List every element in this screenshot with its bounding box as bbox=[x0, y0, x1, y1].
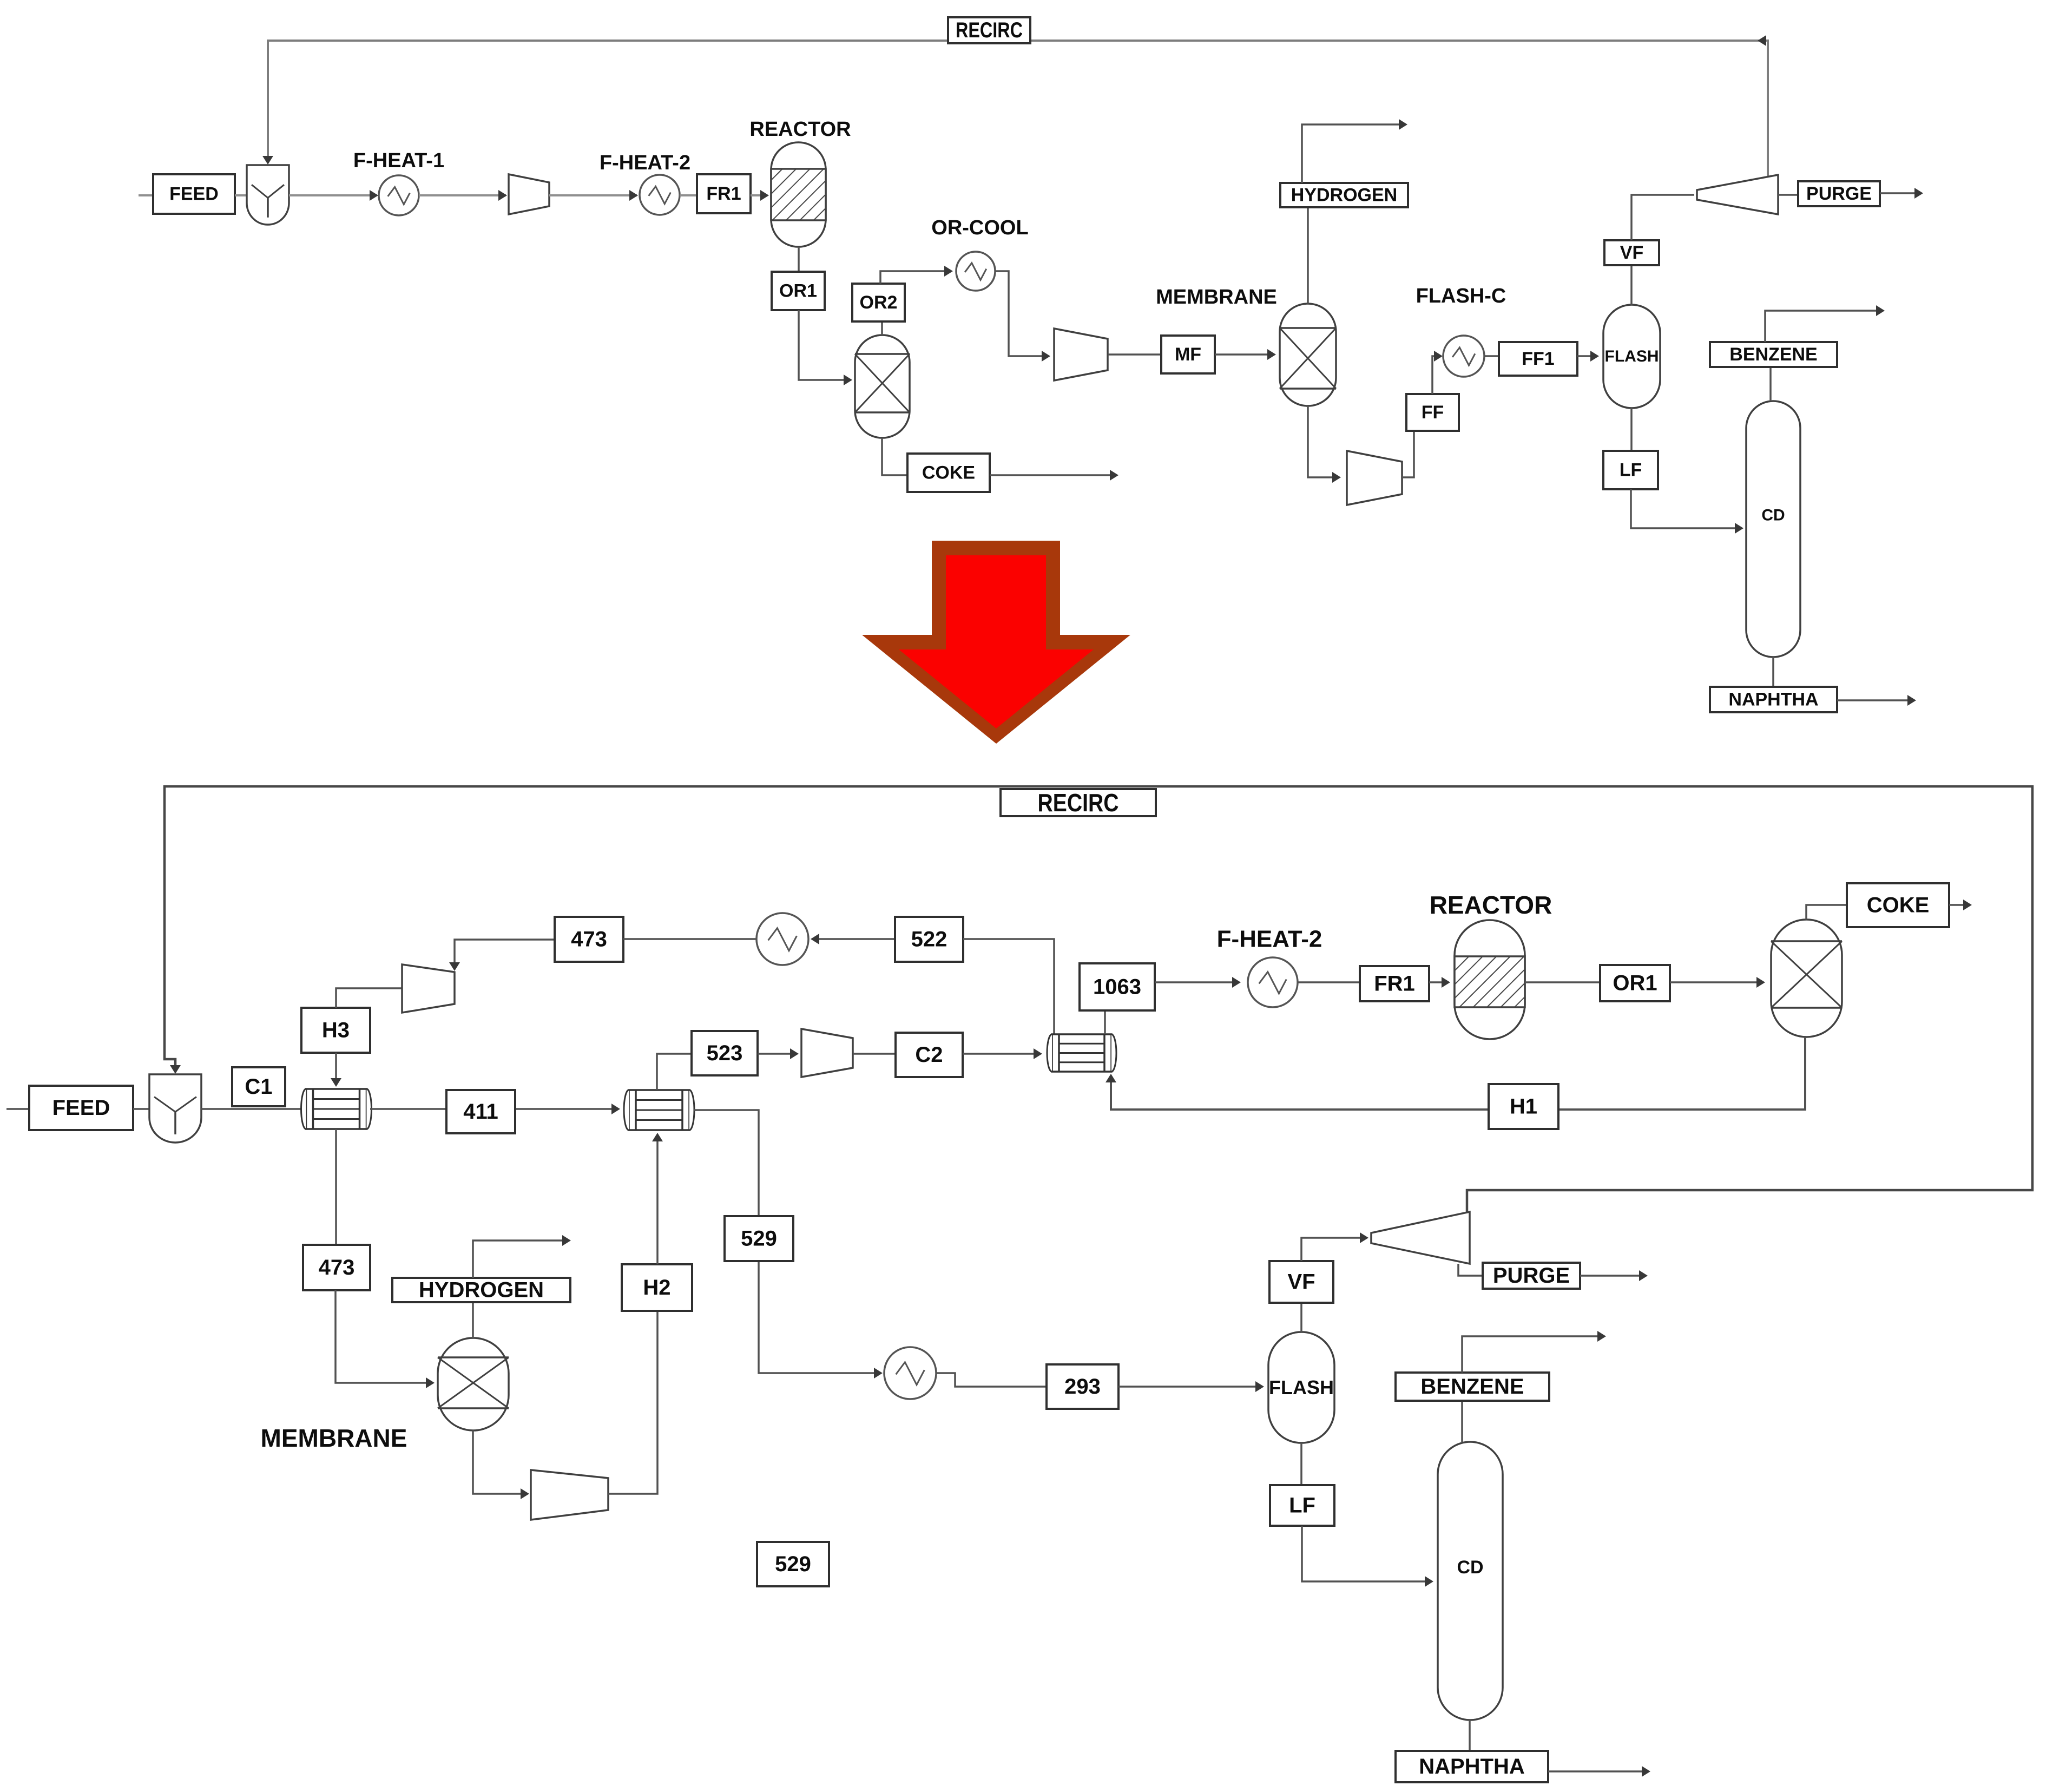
wire PURGE outlet arrow (bottom) bbox=[1580, 1270, 1648, 1281]
wire LF to CD column bbox=[1631, 489, 1743, 534]
big red downward arrow (transform marker) bbox=[862, 541, 1130, 744]
svg-text:529: 529 bbox=[775, 1552, 811, 1576]
wire flash top to VF box (bottom) bbox=[1300, 1303, 1302, 1332]
wire OR1 to separator OR2 bbox=[799, 310, 852, 385]
svg-text:C1: C1 bbox=[245, 1075, 272, 1099]
heat exchanger HX3 (bottom) bbox=[1047, 1034, 1116, 1072]
wire 293 to flash drum (bottom) bbox=[1118, 1381, 1264, 1392]
wire reactor to OR1 (bottom) bbox=[1525, 981, 1600, 983]
stream box 1063 (bottom) bbox=[1080, 963, 1155, 1010]
stream box 522 (bottom) bbox=[895, 917, 963, 962]
stream box FF1 (top) bbox=[1499, 342, 1577, 376]
stream box H3 (bottom) bbox=[301, 1008, 370, 1053]
svg-text:HYDROGEN: HYDROGEN bbox=[419, 1278, 544, 1302]
wire coke drum top to COKE box bbox=[1806, 905, 1847, 920]
stream box RECIRC (bottom) bbox=[1001, 789, 1156, 817]
svg-text:RECIRC: RECIRC bbox=[956, 18, 1023, 42]
compressor K6 (bottom) bbox=[801, 1029, 853, 1077]
wire OR-COOL to compressor K2 bbox=[995, 271, 1050, 362]
svg-text:HYDROGEN: HYDROGEN bbox=[1291, 185, 1397, 206]
svg-text:H2: H2 bbox=[643, 1276, 670, 1299]
heater F-HEAT-1 bbox=[379, 175, 419, 215]
svg-text:RECIRC: RECIRC bbox=[1038, 789, 1119, 817]
stream box NAPHTHA (bottom) bbox=[1396, 1751, 1548, 1782]
cooler E2 (flash feed, bottom) bbox=[884, 1347, 936, 1399]
wire CD top to BENZENE box bbox=[1769, 367, 1772, 401]
wire cooler to 473 box bbox=[623, 938, 756, 940]
stream box FR1 (top) bbox=[697, 174, 751, 213]
heater F-HEAT-2 (bottom) bbox=[1248, 957, 1298, 1007]
expander X1 (bottom left) bbox=[402, 964, 455, 1013]
mixer M1 (bottom) bbox=[149, 1074, 201, 1143]
flash drum (bottom) bbox=[1268, 1332, 1334, 1443]
svg-text:473: 473 bbox=[571, 928, 607, 951]
compressor K1 (top) bbox=[509, 174, 549, 214]
svg-text:OR2: OR2 bbox=[860, 292, 898, 313]
stream box BENZENE (bottom) bbox=[1396, 1373, 1549, 1401]
stream box RECIRC (top) bbox=[948, 17, 1030, 43]
svg-text:COKE: COKE bbox=[922, 463, 975, 483]
svg-text:MEMBRANE: MEMBRANE bbox=[1156, 286, 1277, 308]
wire 522 line from HX3 top bbox=[963, 939, 1054, 1034]
wire FEED to mixer bbox=[235, 194, 247, 196]
stream box MF (top) bbox=[1161, 336, 1215, 373]
svg-text:293: 293 bbox=[1064, 1375, 1101, 1399]
stream box COKE (top) bbox=[907, 454, 990, 492]
wire expander to H3 bbox=[336, 988, 402, 1008]
stream box PURGE (bottom) bbox=[1483, 1263, 1580, 1289]
wire K3 to FF box bbox=[1402, 431, 1414, 477]
stream box H1 (bottom) bbox=[1489, 1084, 1558, 1129]
compressor K7 (purge, bottom) bbox=[1371, 1212, 1470, 1264]
wire recirc top (compressor K4 to mixer M1) bbox=[262, 35, 1768, 176]
cooler FLASH-C bbox=[1443, 336, 1484, 377]
stream box FF (top) bbox=[1406, 394, 1459, 431]
reactor R1 (top) bbox=[771, 142, 826, 247]
svg-text:522: 522 bbox=[911, 928, 947, 951]
stream box 473 (membrane feed, bottom) bbox=[303, 1245, 370, 1290]
svg-text:LF: LF bbox=[1289, 1494, 1315, 1518]
svg-text:PURGE: PURGE bbox=[1806, 183, 1872, 204]
stream box HYDROGEN (bottom) bbox=[392, 1278, 570, 1302]
stream box 411 (bottom) bbox=[446, 1090, 515, 1133]
cooler OR-COOL bbox=[956, 252, 995, 291]
wire coke drum bottom to HX3 (H1 stream) bbox=[1106, 1037, 1805, 1110]
wire HYDROGEN outlet arrow bbox=[1302, 119, 1407, 183]
stream box FR1 (bottom) bbox=[1360, 966, 1429, 1001]
svg-text:FEED: FEED bbox=[169, 184, 219, 205]
wire FEED to mixer (bottom) bbox=[133, 1108, 149, 1110]
wire FR1 to reactor (bottom) bbox=[1429, 977, 1450, 988]
svg-text:BENZENE: BENZENE bbox=[1420, 1375, 1524, 1399]
wire CD top to BENZENE box (bottom) bbox=[1461, 1401, 1463, 1442]
separator vessel (coke drum, top) bbox=[855, 335, 910, 438]
stream box C2 (bottom) bbox=[896, 1033, 963, 1077]
stream box 529 (standalone, bottom) bbox=[757, 1542, 829, 1586]
svg-text:VF: VF bbox=[1287, 1270, 1315, 1294]
svg-text:FF1: FF1 bbox=[1522, 349, 1554, 369]
wire NAPHTHA outlet arrow bbox=[1837, 695, 1916, 706]
wire mixer to HX1 (C1 stream) bbox=[201, 1108, 302, 1110]
svg-text:REACTOR: REACTOR bbox=[749, 118, 851, 141]
wire MF to membrane bbox=[1215, 349, 1276, 360]
compressor K2 (top, membrane feed) bbox=[1054, 329, 1108, 380]
stream box LF (top) bbox=[1603, 451, 1658, 489]
wire H2 to HX2 bottom bbox=[652, 1133, 663, 1264]
wire BENZENE outlet arrow bbox=[1765, 305, 1885, 342]
wire K2 to MF box bbox=[1108, 353, 1161, 356]
wire F-HEAT-2 to FR1 bbox=[680, 194, 697, 196]
wire OR1 to coke drum (bottom) bbox=[1670, 977, 1765, 988]
wire NAPHTHA outlet arrow (bottom) bbox=[1548, 1766, 1650, 1777]
wire mixer to F-HEAT-1 bbox=[289, 190, 378, 201]
stream box VF (bottom) bbox=[1269, 1261, 1333, 1303]
heater F-HEAT-2 (top) bbox=[640, 175, 680, 215]
svg-text:FF: FF bbox=[1422, 402, 1444, 423]
stream box FEED (bottom) bbox=[29, 1086, 133, 1130]
stream box 293 (bottom) bbox=[1047, 1364, 1118, 1409]
svg-text:MEMBRANE: MEMBRANE bbox=[261, 1424, 407, 1452]
wire VF to purge compressor (bottom) bbox=[1301, 1232, 1368, 1261]
wire HX2 top to 523 box bbox=[657, 1054, 692, 1090]
wire flash top to VF box bbox=[1630, 265, 1633, 305]
svg-text:VF: VF bbox=[1620, 242, 1643, 263]
stream box OR1 (bottom) bbox=[1600, 965, 1670, 1001]
svg-text:OR1: OR1 bbox=[779, 281, 817, 301]
wire feed inlet stub (bottom) bbox=[6, 1108, 29, 1110]
svg-text:H3: H3 bbox=[322, 1019, 350, 1042]
wire reactor to OR1 bbox=[798, 247, 800, 272]
wire BENZENE outlet arrow (bottom) bbox=[1462, 1331, 1606, 1373]
membrane vessel (bottom) bbox=[438, 1338, 509, 1430]
wire OR2 to OR-COOL bbox=[880, 266, 953, 284]
wire CD bottom to NAPHTHA box bbox=[1772, 657, 1774, 687]
svg-text:F-HEAT-1: F-HEAT-1 bbox=[353, 149, 444, 172]
svg-text:LF: LF bbox=[1620, 460, 1642, 481]
svg-text:FR1: FR1 bbox=[706, 183, 741, 204]
svg-text:NAPHTHA: NAPHTHA bbox=[1419, 1755, 1525, 1778]
wire flash bottom to LF box bbox=[1630, 408, 1633, 451]
svg-text:C2: C2 bbox=[915, 1043, 943, 1067]
wire HYDROGEN outlet arrow (bottom) bbox=[473, 1235, 571, 1278]
wire FLASH-C to FF1 bbox=[1484, 355, 1499, 357]
wire HX1 to HX2 (411 stream) bbox=[370, 1104, 620, 1114]
coke drum vessel (bottom) bbox=[1771, 920, 1842, 1037]
wire H3 to HX1 top bbox=[331, 1053, 341, 1087]
svg-text:REACTOR: REACTOR bbox=[1430, 891, 1552, 919]
stream box OR1 (top) bbox=[772, 272, 825, 310]
stream box C1 (bottom) bbox=[232, 1067, 285, 1106]
stream box PURGE (top) bbox=[1798, 181, 1880, 206]
wire membrane top to HYDROGEN box bbox=[1307, 207, 1309, 304]
wire HX2 to 529 and cooler E2 bbox=[694, 1110, 883, 1379]
wire membrane bottom to compressor K5 bbox=[473, 1430, 529, 1499]
compressor K3 (top, flash feed) bbox=[1347, 451, 1402, 505]
heat exchanger HX2 (bottom) bbox=[624, 1090, 694, 1130]
cooler E1 (522 to 473, bottom) bbox=[756, 913, 808, 965]
wire recirc line (bottom, purge compressor to mixer) bbox=[164, 786, 2032, 1212]
wire K6 to C2 box bbox=[853, 1053, 896, 1055]
svg-text:CD: CD bbox=[1761, 507, 1785, 524]
wire 522 to cooler E1 bbox=[811, 934, 895, 944]
distillation column CD (bottom) bbox=[1438, 1442, 1503, 1720]
svg-text:FEED: FEED bbox=[52, 1096, 110, 1120]
svg-text:H1: H1 bbox=[1510, 1095, 1537, 1119]
wire COKE outlet arrow bbox=[990, 470, 1118, 481]
svg-text:F-HEAT-2: F-HEAT-2 bbox=[1217, 926, 1322, 953]
wire flash bottom to LF box (bottom) bbox=[1300, 1443, 1302, 1485]
stream box BENZENE (top) bbox=[1710, 342, 1837, 367]
stream box NAPHTHA (top) bbox=[1710, 687, 1837, 712]
wire separator top to OR2 box bbox=[881, 321, 883, 335]
compressor K4 (purge, top) bbox=[1697, 175, 1778, 214]
wire PURGE outlet arrow bbox=[1880, 188, 1923, 199]
wire COKE outlet arrow (bottom) bbox=[1949, 900, 1972, 910]
wire HX1 bottom to 473 box bbox=[335, 1129, 337, 1245]
mixer M1 (top) bbox=[247, 165, 289, 225]
heat exchanger HX1 (bottom) bbox=[301, 1089, 372, 1129]
stream box VF (top) bbox=[1604, 240, 1659, 265]
wire separator bottom to COKE box bbox=[882, 438, 907, 475]
svg-text:FLASH-C: FLASH-C bbox=[1416, 285, 1506, 307]
svg-text:OR-COOL: OR-COOL bbox=[931, 216, 1028, 239]
wire cooler E2 to 293 box bbox=[936, 1373, 1047, 1387]
svg-text:529: 529 bbox=[741, 1227, 777, 1251]
wire 1063 to F-HEAT-2 (bottom) bbox=[1155, 977, 1241, 988]
wire feed inlet stub bbox=[139, 194, 153, 196]
svg-text:FLASH: FLASH bbox=[1269, 1376, 1334, 1399]
wire LF to CD column (bottom) bbox=[1302, 1526, 1433, 1587]
wire FF to FLASH-C bbox=[1432, 351, 1443, 394]
wire F-HEAT-1 to compressor K1 bbox=[419, 190, 507, 201]
wire 523 to compressor K6 bbox=[758, 1048, 799, 1059]
svg-text:FLASH: FLASH bbox=[1605, 347, 1659, 365]
wire CD bottom to NAPHTHA box (bottom) bbox=[1469, 1720, 1471, 1751]
reactor R1 (bottom) bbox=[1455, 920, 1525, 1039]
svg-text:MF: MF bbox=[1175, 344, 1201, 365]
wire K4 to PURGE box bbox=[1778, 194, 1798, 196]
wire K1 to F-HEAT-2 bbox=[549, 190, 638, 201]
flash drum (top) bbox=[1603, 305, 1660, 408]
wire membrane bottom to compressor K3 bbox=[1308, 406, 1341, 483]
stream box 523 (bottom) bbox=[692, 1031, 758, 1075]
stream box COKE (bottom) bbox=[1847, 883, 1949, 927]
wire FF1 to flash drum bbox=[1577, 351, 1599, 362]
membrane vessel (top) bbox=[1280, 304, 1336, 406]
svg-text:1063: 1063 bbox=[1093, 975, 1141, 999]
stream box LF (bottom) bbox=[1270, 1485, 1334, 1526]
wire HX3 to 1063 box bbox=[1104, 1010, 1106, 1034]
wire 473 to membrane bbox=[335, 1290, 435, 1388]
svg-text:BENZENE: BENZENE bbox=[1729, 344, 1817, 365]
wire 473 box to expander inlet bbox=[449, 940, 555, 971]
wire K7 to PURGE box (bottom) bbox=[1458, 1264, 1483, 1276]
compressor K5 (membrane permeate, bottom) bbox=[531, 1470, 608, 1520]
svg-text:PURGE: PURGE bbox=[1493, 1264, 1570, 1288]
stream box H2 (bottom) bbox=[622, 1264, 692, 1311]
wire FR1 to reactor bbox=[751, 190, 769, 201]
wire C2 to HX3 bbox=[963, 1048, 1042, 1059]
wire VF to compressor K4 bbox=[1631, 195, 1694, 240]
svg-text:411: 411 bbox=[463, 1100, 498, 1124]
svg-text:FR1: FR1 bbox=[1374, 972, 1415, 996]
stream box HYDROGEN (top) bbox=[1280, 183, 1408, 207]
svg-text:COKE: COKE bbox=[1867, 894, 1930, 917]
svg-text:523: 523 bbox=[707, 1041, 743, 1065]
stream box 529 (on line, bottom) bbox=[725, 1216, 793, 1261]
svg-text:CD: CD bbox=[1457, 1557, 1483, 1578]
stream box OR2 (top) bbox=[852, 284, 905, 321]
wire F-HEAT-2 to FR1 (bottom) bbox=[1298, 981, 1360, 983]
svg-text:473: 473 bbox=[319, 1256, 355, 1279]
distillation column CD (top) bbox=[1746, 401, 1800, 657]
svg-text:NAPHTHA: NAPHTHA bbox=[1728, 690, 1818, 710]
svg-text:OR1: OR1 bbox=[1613, 972, 1657, 995]
svg-text:F-HEAT-2: F-HEAT-2 bbox=[600, 152, 690, 174]
wire membrane top to HYDROGEN box (bottom) bbox=[472, 1302, 474, 1338]
stream box FEED (top) bbox=[153, 174, 235, 214]
stream box 473 (recycle, bottom) bbox=[555, 917, 623, 962]
wire K5 to HX2 via H2 bbox=[608, 1311, 657, 1494]
